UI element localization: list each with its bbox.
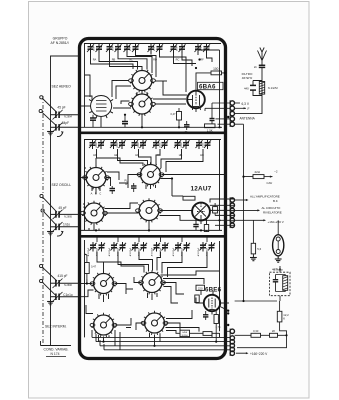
svg-text:B: B — [225, 204, 227, 208]
trimmer K4 — [150, 242, 168, 256]
rotor arm wire — [43, 99, 58, 113]
CAV vertical feed — [243, 177, 245, 301]
svg-text:6BA6: 6BA6 — [199, 84, 216, 91]
main shield box outline — [80, 39, 226, 359]
wire mesh from trimmers to switches — [81, 53, 213, 127]
screen bypass resistor R2 0,47 — [177, 112, 182, 121]
bypass capacitor C4 50n — [184, 121, 190, 130]
resistor 2K — [270, 333, 278, 337]
trimmer pair T6 — [195, 44, 202, 54]
svg-text:0,33: 0,33 — [253, 329, 259, 333]
IF internal wires — [276, 275, 286, 292]
plate supply wire — [196, 73, 226, 91]
label GRUPPO AF N.2851/I — [50, 37, 68, 45]
ground — [47, 300, 54, 305]
svg-text:A 5000pF: A 5000pF — [197, 247, 200, 256]
ground — [47, 230, 54, 235]
svg-text:100: 100 — [213, 67, 219, 71]
variable capacitor C1a 45pF — [51, 106, 80, 120]
VR tube ground — [277, 256, 279, 258]
label bracket — [51, 56, 80, 345]
rotor contact circle — [40, 96, 43, 99]
svg-text:84pF: 84pF — [62, 121, 69, 125]
resistor R8 220 — [196, 285, 205, 290]
svg-text:45000: 45000 — [181, 141, 183, 147]
rotor contact circle — [40, 279, 43, 282]
grid resistor R9 — [195, 295, 199, 303]
svg-text:415 pF: 415 pF — [58, 274, 68, 278]
trimmer K3 — [129, 242, 147, 256]
grid capacitor C5 — [210, 115, 215, 124]
label +160-220V — [235, 219, 264, 221]
variable capacitor C1b 84pF — [51, 121, 80, 132]
cathode resistor R10 4,7K — [214, 315, 218, 324]
terminal strip A — [230, 101, 234, 127]
svg-text:SEZ INTERM.: SEZ INTERM. — [45, 324, 67, 328]
top bus wire — [84, 43, 221, 45]
rotary switch S2a — [83, 165, 110, 189]
cathode resistor R3 1,5K — [205, 124, 216, 128]
terminal strip B rail — [229, 197, 231, 228]
svg-text:22H: 22H — [255, 170, 260, 174]
svg-text:467kHz: 467kHz — [242, 76, 253, 80]
svg-text:467kHz: 467kHz — [272, 268, 283, 272]
rotary switch S3d — [141, 311, 168, 335]
IF capacitor — [273, 275, 278, 292]
label F with arrow — [235, 107, 246, 109]
IF feed wire — [235, 296, 280, 301]
junction dot — [285, 334, 287, 336]
VR tube feed — [277, 220, 279, 235]
svg-text:2n: 2n — [254, 65, 258, 69]
coupling capacitor C7 — [122, 115, 128, 128]
cathode capacitor C9 — [193, 225, 198, 231]
trimmer K6 — [197, 242, 215, 256]
antenna series capacitor 2n — [259, 61, 265, 81]
svg-text:AL CIRCUITO: AL CIRCUITO — [262, 206, 282, 210]
trimmer H5 — [174, 140, 190, 158]
svg-text:RL: RL — [129, 58, 133, 62]
svg-text:C1n1o: C1n1o — [63, 293, 73, 297]
trimmer stubs to divider — [97, 237, 207, 242]
trimmer pair T2 — [106, 44, 113, 54]
ganged-tuning dash-dot line — [42, 96, 44, 345]
rotor contact circle — [41, 209, 44, 212]
bleeder resistor 5,6K — [251, 243, 255, 254]
svg-text:B.F.: B.F. — [273, 199, 278, 203]
rotary switch S3a — [90, 271, 117, 295]
tube V1 6BA6 — [187, 91, 205, 112]
svg-text:RB: RB — [112, 58, 116, 62]
svg-text:45 pF: 45 pF — [58, 206, 66, 210]
label ALL'AMPLIFICATORE BF — [235, 199, 247, 201]
svg-text:6BE6: 6BE6 — [205, 286, 222, 293]
svg-text:K: K — [283, 317, 285, 321]
svg-text:N.1/2/M: N.1/2/M — [268, 86, 278, 90]
svg-text:RIVELATORE: RIVELATORE — [263, 211, 282, 215]
section1 bottom bus — [81, 126, 223, 128]
antenna — [258, 48, 267, 61]
svg-text:440: 440 — [244, 86, 249, 90]
svg-text:45000: 45000 — [96, 141, 98, 147]
svg-text:12AU7: 12AU7 — [191, 185, 212, 192]
svg-text:A 5000pF: A 5000pF — [87, 247, 90, 256]
tube V2 12AU7 — [192, 203, 210, 221]
svg-text:HB: HB — [179, 153, 183, 157]
rotor contact circle — [40, 194, 43, 197]
rotor arrow — [57, 133, 63, 137]
rotor arm wire — [42, 282, 55, 295]
trimmer pair T1a/T1b — [87, 44, 94, 54]
resistor R11 — [203, 332, 212, 336]
resistor 12,2K — [277, 311, 282, 322]
plate resistor R5 — [213, 207, 218, 213]
svg-text:2K: 2K — [272, 329, 275, 333]
svg-text:A B C: A B C — [91, 192, 103, 196]
IF transformer dashed box — [270, 272, 291, 296]
svg-text:RA: RA — [93, 58, 97, 62]
svg-text:C: C — [225, 209, 227, 213]
svg-text:1n1o: 1n1o — [63, 222, 70, 226]
svg-text:+160÷220 V: +160÷220 V — [268, 220, 284, 224]
section2 bottom bus — [81, 229, 223, 231]
svg-text:RF: RF — [200, 58, 204, 62]
trimmer pair T4 — [148, 44, 155, 54]
B+ rail inside right edge — [219, 50, 221, 127]
variable capacitor C3b — [51, 292, 80, 302]
terminal strip C rail — [229, 329, 231, 357]
shield partition 1 (thick) — [81, 132, 225, 135]
padder capacitor PL 4n — [110, 186, 116, 194]
rotor arm wire — [43, 197, 57, 212]
svg-text:N 174: N 174 — [50, 352, 59, 356]
svg-text:45000: 45000 — [202, 141, 204, 147]
svg-text:A: A — [225, 199, 227, 203]
ground — [47, 130, 54, 135]
oscillator capacitor C10 — [203, 311, 208, 320]
label +160/220V out — [236, 352, 247, 354]
svg-text:A 5000pF: A 5000pF — [129, 247, 132, 256]
rotary switch S2b — [137, 162, 164, 186]
trimmer K5 — [172, 242, 190, 256]
rotor arm wire — [42, 267, 57, 281]
B+ feed wire down right column — [235, 124, 253, 176]
voltage regulator tube — [273, 235, 284, 256]
label 6,3V — [235, 102, 240, 104]
svg-text:RC: RC — [176, 58, 180, 62]
svg-text:45 pF: 45 pF — [57, 106, 65, 110]
cathode resistor R6 — [204, 225, 208, 232]
svg-text:0,47: 0,47 — [91, 265, 97, 269]
antenna coil L1 (bumpy can) — [89, 96, 113, 119]
junction dots — [95, 177, 221, 231]
wire 12,2K to AVC loop — [237, 322, 287, 348]
strip A stubs into box — [205, 103, 230, 124]
bottom buses — [88, 330, 230, 353]
terminal strip A rail — [229, 100, 231, 127]
svg-text:+160÷220 V: +160÷220 V — [250, 352, 268, 356]
capacitor C8 — [131, 183, 137, 192]
filter coil — [259, 82, 264, 95]
svg-text:A 5000pF: A 5000pF — [172, 247, 175, 256]
svg-text:COND. VARIAB.: COND. VARIAB. — [44, 347, 69, 351]
decoupling capacitor C6 — [90, 115, 96, 128]
shield partition 2 (thick) — [81, 235, 225, 238]
terminal strip B — [230, 198, 234, 228]
trimmer H1 with value — [89, 140, 105, 158]
rotary switch S2d — [136, 198, 163, 222]
svg-text:5,6: 5,6 — [257, 247, 261, 251]
trimmer H4 — [153, 140, 169, 158]
svg-text:N.150: N.150 — [182, 335, 189, 337]
rotor arm wire — [42, 112, 56, 125]
rotor arm wire — [44, 212, 56, 225]
svg-text:F: F — [248, 107, 250, 111]
variable capacitor C3a 415pF — [51, 274, 80, 288]
resistor R1 100 — [211, 71, 222, 75]
svg-text:AF N.2851/I: AF N.2851/I — [50, 41, 68, 45]
strip C left stubs — [224, 330, 230, 332]
grid resistor R4 — [183, 196, 195, 200]
trimmer H2 — [110, 140, 126, 158]
svg-text:N.2696: N.2696 — [64, 284, 72, 287]
rotary switch S2c — [81, 201, 108, 225]
trimmer pair T3 — [124, 44, 131, 54]
variable capacitor C2b 1n — [51, 222, 80, 231]
trimmer H6 — [196, 140, 212, 158]
wire filter to antenna terminal — [235, 96, 262, 114]
trimmer K1 — [87, 242, 105, 256]
crystal box N.150 — [180, 330, 190, 336]
ground rail inside left edge (section1) — [85, 44, 93, 128]
svg-text:45000: 45000 — [117, 141, 119, 147]
variable capacitor C2a 45pF — [51, 206, 80, 219]
wire mesh section3 — [81, 240, 230, 350]
dropper resistor R7 0,47 — [85, 263, 90, 274]
svg-text:A 5000pF: A 5000pF — [108, 247, 111, 256]
svg-text:N.2694: N.2694 — [64, 116, 72, 119]
antenna filter tank — [250, 81, 262, 96]
svg-text:0456: 0456 — [182, 332, 188, 334]
rotary switch S3c — [90, 313, 117, 337]
svg-text:45000: 45000 — [159, 141, 161, 147]
choke 22H — [253, 175, 264, 179]
trimmer K2 — [108, 242, 126, 256]
rotor arrow — [57, 232, 63, 236]
svg-text:0,47: 0,47 — [170, 112, 176, 116]
rotor contact circle — [40, 264, 43, 267]
svg-text:6,3 V: 6,3 V — [242, 102, 250, 106]
junction dot on shield — [227, 116, 229, 118]
rotor contact circle — [39, 109, 42, 112]
svg-text:SEZ OSCILL: SEZ OSCILL — [52, 183, 72, 187]
section2 top bus — [84, 139, 221, 141]
IF coil — [283, 276, 288, 291]
trimmer pair T5 — [170, 44, 177, 54]
svg-text:--2: --2 — [274, 170, 278, 174]
svg-text:CAV: CAV — [267, 181, 273, 185]
svg-text:A 5000pF: A 5000pF — [150, 247, 153, 256]
label 6BA6 — [198, 82, 224, 89]
bracket over COND VARIAB — [41, 345, 72, 347]
wire mesh section2 — [81, 140, 235, 231]
svg-text:220: 220 — [198, 287, 203, 291]
rotary switch S1b — [129, 92, 156, 116]
junction dots — [86, 282, 230, 347]
rotary switch S1a — [129, 68, 156, 92]
svg-text:N.2695: N.2695 — [64, 215, 72, 218]
terminal strip C — [230, 329, 234, 355]
rotary switch S3b — [139, 270, 166, 294]
svg-text:ANTENNA: ANTENNA — [240, 116, 256, 120]
tube V3 6BE6 — [204, 295, 220, 311]
svg-text:SEZ AEREO: SEZ AEREO — [52, 85, 72, 89]
trimmer H3 — [131, 140, 147, 158]
junction dots — [124, 67, 221, 129]
label AL CIRCUITO RIVELATORE — [235, 209, 258, 211]
AVC wire with resistors — [235, 334, 287, 336]
svg-text:45000: 45000 — [138, 141, 140, 147]
resistor 0,33 — [251, 333, 261, 337]
